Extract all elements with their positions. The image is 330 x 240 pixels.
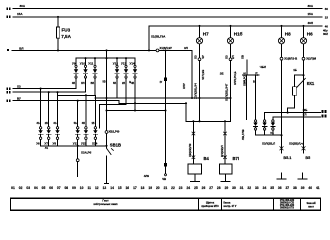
svg-text:30Л: 30Л [323,32,328,36]
svg-text:ЗБ: ЗБ [220,72,224,76]
svg-text:В5: В5 [305,156,310,160]
svg-text:ВЧ(2В)Л: ВЧ(2В)Л [220,145,224,157]
wire riser X1 [148,26,150,51]
node 30 terminal [6,7,8,10]
wire B4-B7 feed [186,120,231,122]
svg-text:36: 36 [278,186,282,190]
wire to terminal MB [265,112,321,114]
lamp Н7 [199,26,201,38]
svg-text:У7: У7 [44,142,48,146]
svg-text:30: 30 [232,186,236,190]
svg-text:У8: У8 [53,142,57,146]
svg-text:04: 04 [34,186,38,190]
svg-text:09: 09 [72,186,76,190]
node C terminal [6,99,8,102]
svg-text:КК1: КК1 [307,81,315,86]
svg-text:16: 16 [125,186,129,190]
bus top diode group [76,57,135,59]
svg-text:Х1(8Л,ЗУ: Х1(8Л,ЗУ [160,46,173,50]
diode VD16 [264,113,266,120]
svg-text:Зам-ий: Зам-ий [307,201,316,205]
svg-text:ЗЛ: ЗЛ [184,46,188,50]
svg-text:В4: В4 [204,156,210,161]
svg-text:АЦ: АЦ [45,146,49,149]
svg-text:30А: 30А [308,4,314,8]
svg-text:В5.1: В5.1 [283,156,291,160]
svg-text:34: 34 [263,186,267,190]
svg-text:03: 03 [26,186,30,190]
svg-text:41: 41 [316,186,320,190]
wire right T-bar [243,74,260,76]
svg-text:ХЛУ: ХЛУ [182,83,186,89]
svg-text:15А: 15А [308,12,314,16]
svg-text:39: 39 [301,186,305,190]
svg-text:35: 35 [270,186,274,190]
svg-text:1Б: 1Б [91,122,94,125]
svg-text:контр. 4Г У: контр. 4Г У [224,205,237,208]
svg-text:23: 23 [179,186,183,190]
node A terminal [6,87,8,90]
diode VD17 [272,117,274,120]
wire node98 [95,97,231,99]
diode У7 [48,92,50,126]
svg-text:БЛ: БЛ [81,82,85,85]
wire B-feeder drop [230,98,232,121]
svg-text:ЧГЛ,ЗВ: ЧГЛ,ЗВ [201,70,205,80]
svg-text:Н7: Н7 [203,32,209,37]
wire SB1B feeder [106,50,108,130]
svg-text:Н8: Н8 [285,32,291,37]
svg-text:У10: У10 [80,62,86,66]
svg-text:ВЛ: ВЛ [19,46,23,50]
svg-text:ВУ: ВУ [17,97,21,101]
ground B7 [221,181,230,183]
svg-text:37: 37 [285,186,289,190]
wire lamp H8 drop [281,44,283,57]
svg-text:30А: 30А [20,4,26,8]
svg-text:У9: У9 [72,62,76,66]
svg-text:4Л9: 4Л9 [144,174,150,178]
bus right diode group [256,134,282,136]
svg-text:17: 17 [133,186,137,190]
svg-text:ХЗЛ(2В),ЗЧ: ХЗЛ(2В),ЗЧ [194,83,198,99]
svg-text:Гист: Гист [102,198,109,202]
svg-text:Н6: Н6 [307,32,313,37]
node 15 terminal [6,16,8,19]
svg-text:5Б: 5Б [113,82,116,85]
svg-text:3805010 ПЭ: 3805010 ПЭ [280,207,294,210]
wire W7 [107,110,166,112]
svg-text:коНтрольных ламп: коНтрольных ламп [94,203,118,206]
svg-text:ЗЬ: ЗЬ [36,122,39,125]
svg-text:29: 29 [225,186,229,190]
svg-text:У6: У6 [36,142,40,146]
svg-text:40Л: 40Л [308,21,313,25]
svg-text:ЗЬ: ЗЬ [53,122,56,125]
fuse FU3 7,5A [57,17,59,27]
svg-text:22: 22 [171,186,175,190]
diode У23 [85,95,87,126]
svg-text:20: 20 [156,186,160,190]
svg-text:ЛВ,ГЛВ: ЛВ,ГЛВ [241,129,245,140]
svg-text:У23: У23 [81,142,87,146]
diode У6 [40,89,42,127]
svg-text:32: 32 [247,186,251,190]
svg-text:ЗЛЛ,РО,Б: ЗЛЛ,РО,Б [233,71,237,85]
svg-text:26: 26 [202,186,206,190]
svg-text:15А: 15А [17,12,23,16]
svg-text:Б: Б [244,79,246,83]
svg-text:33: 33 [255,186,259,190]
svg-text:40: 40 [308,186,312,190]
svg-text:ГЛ: ГЛ [303,113,307,117]
svg-text:Х14: Х14 [92,142,98,146]
svg-text:10: 10 [80,186,84,190]
svg-text:ЧУ: ЧУ [201,55,205,59]
svg-text:19: 19 [148,186,152,190]
lamp Н8 [281,26,283,38]
svg-text:12: 12 [95,186,99,190]
node B terminal [6,91,8,94]
wire X-drop [185,103,187,121]
svg-text:ВБ: ВБ [91,82,95,85]
svg-text:08: 08 [64,186,68,190]
wire to terminal GL [273,116,320,118]
svg-text:Н1б: Н1б [234,31,243,37]
svg-text:В7І: В7І [233,156,240,161]
svg-text:В: В [253,79,255,83]
thermal relay KK1 [302,74,304,76]
svg-text:05: 05 [42,186,46,190]
svg-text:В: В [129,80,131,84]
ground B5.1 [281,173,283,179]
svg-text:5Ь: 5Ь [74,122,77,125]
svg-text:1Б: 1Б [293,68,297,72]
wire lamp H1b drop [230,44,232,58]
wire center feeder [165,50,167,174]
svg-text:11: 11 [87,186,91,190]
lamp Н1б [230,26,232,38]
wire W5 [100,104,127,106]
diode Х14 [94,95,96,126]
svg-text:27: 27 [209,186,213,190]
svg-text:ХЗ: ХЗ [17,85,21,89]
svg-text:SB1В: SB1В [110,142,121,147]
bus lower diode group [41,145,107,147]
wire W3 [58,94,96,96]
svg-text:01: 01 [11,186,15,190]
svg-text:2Б: 2Б [45,122,48,125]
lamp Н6 [303,26,305,38]
connector B5 [302,147,305,150]
svg-text:28: 28 [217,186,221,190]
wire 30 rail [13,8,322,10]
svg-text:15: 15 [325,16,329,20]
diode VD15 [255,75,257,120]
wire 15 rail [13,16,322,18]
svg-text:ХВ(2В)ЛЗ: ХВ(2В)ЛЗ [188,143,192,157]
ground B4 [191,181,200,183]
wire corner drop to node98 [191,50,193,98]
svg-text:ЧВ: ЧВ [162,177,166,181]
svg-text:ХВ2,РФ: ХВ2,РФ [109,130,120,134]
svg-text:06: 06 [49,186,53,190]
wire lamp H7 drop [199,44,201,58]
diode У8 [57,92,59,126]
buzzer B4 [192,121,194,164]
wire W2 [13,91,86,93]
svg-text:ЗБ: ЗБ [72,82,75,85]
svg-text:ЗБ: ЗБ [82,122,85,125]
svg-text:31: 31 [240,186,244,190]
svg-text:Х1(8ЛЗ-В: Х1(8ЛЗ-В [284,57,297,61]
svg-text:ІУ: ІУ [160,80,163,84]
svg-text:38: 38 [293,186,297,190]
svg-text:ХВ: ХВ [240,55,244,59]
wire tail connector [77,146,79,159]
svg-text:ЧБ: ЧБ [131,82,135,85]
svg-text:02: 02 [19,186,23,190]
buzzer B7 [224,121,226,164]
connector X SB1B [105,131,108,134]
switch SB1B [106,133,108,147]
title block [11,198,321,210]
wire lamp H6 drop [303,44,305,57]
svg-text:18: 18 [141,186,145,190]
svg-text:5Б: 5Б [103,81,106,84]
svg-text:FU3: FU3 [62,27,71,32]
svg-text:14: 14 [110,186,114,190]
svg-text:У4: У4 [270,131,274,135]
svg-text:2Б: 2Б [122,82,125,85]
svg-text:Х1(5В,Г9А: Х1(5В,Г9А [151,34,166,38]
svg-text:ХЗЛ(2В,Л: ХЗЛ(2В,Л [262,142,275,146]
svg-text:У14: У14 [130,62,136,66]
svg-text:15: 15 [118,186,122,190]
svg-text:24: 24 [186,186,190,190]
svg-text:25: 25 [194,186,198,190]
svg-text:21: 21 [164,186,168,190]
connector B5.1 [280,147,283,150]
svg-text:30: 30 [325,7,329,11]
svg-text:7,5А: 7,5А [61,34,71,39]
wire stub [245,75,247,120]
svg-text:ХЗ(2В)Л,ч: ХЗ(2В)Л,ч [289,142,303,146]
svg-text:Х(2Л)М: Х(2Л)М [306,57,316,61]
svg-text:ХЗ: ХЗ [224,55,228,59]
svg-text:лист: лист [308,206,315,209]
svg-text:приборов МТЗ: приборов МТЗ [201,205,219,208]
wire 40 lamp rail [149,25,322,27]
svg-text:У11: У11 [88,62,93,66]
svg-text:ЧБЛ: ЧБЛ [260,65,266,69]
svg-text:ХЗА,Рб: ХЗА,Рб [81,150,92,154]
svg-text:13: 13 [103,186,107,190]
svg-text:07: 07 [57,186,61,190]
ground B5 [301,173,303,179]
svg-text:ХЗ: ХЗ [194,55,198,59]
node 50 protected rail terminal [7,49,9,51]
diode У13 [77,101,79,127]
